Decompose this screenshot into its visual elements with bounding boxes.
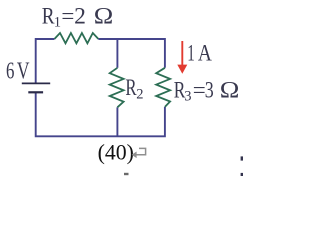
svg-text:3: 3	[184, 89, 191, 105]
svg-text:Ω: Ω	[94, 3, 114, 28]
svg-text:2: 2	[74, 3, 86, 28]
svg-text:6: 6	[6, 59, 14, 85]
svg-text:2: 2	[136, 86, 143, 102]
svg-text:V: V	[17, 59, 30, 85]
svg-text:1: 1	[187, 41, 195, 66]
svg-text:Ω: Ω	[220, 77, 240, 102]
svg-text:A: A	[198, 41, 212, 66]
svg-text:1: 1	[54, 15, 61, 31]
svg-text:(40): (40)	[98, 141, 134, 165]
svg-text:=: =	[61, 3, 74, 28]
svg-text:3: 3	[205, 77, 214, 102]
